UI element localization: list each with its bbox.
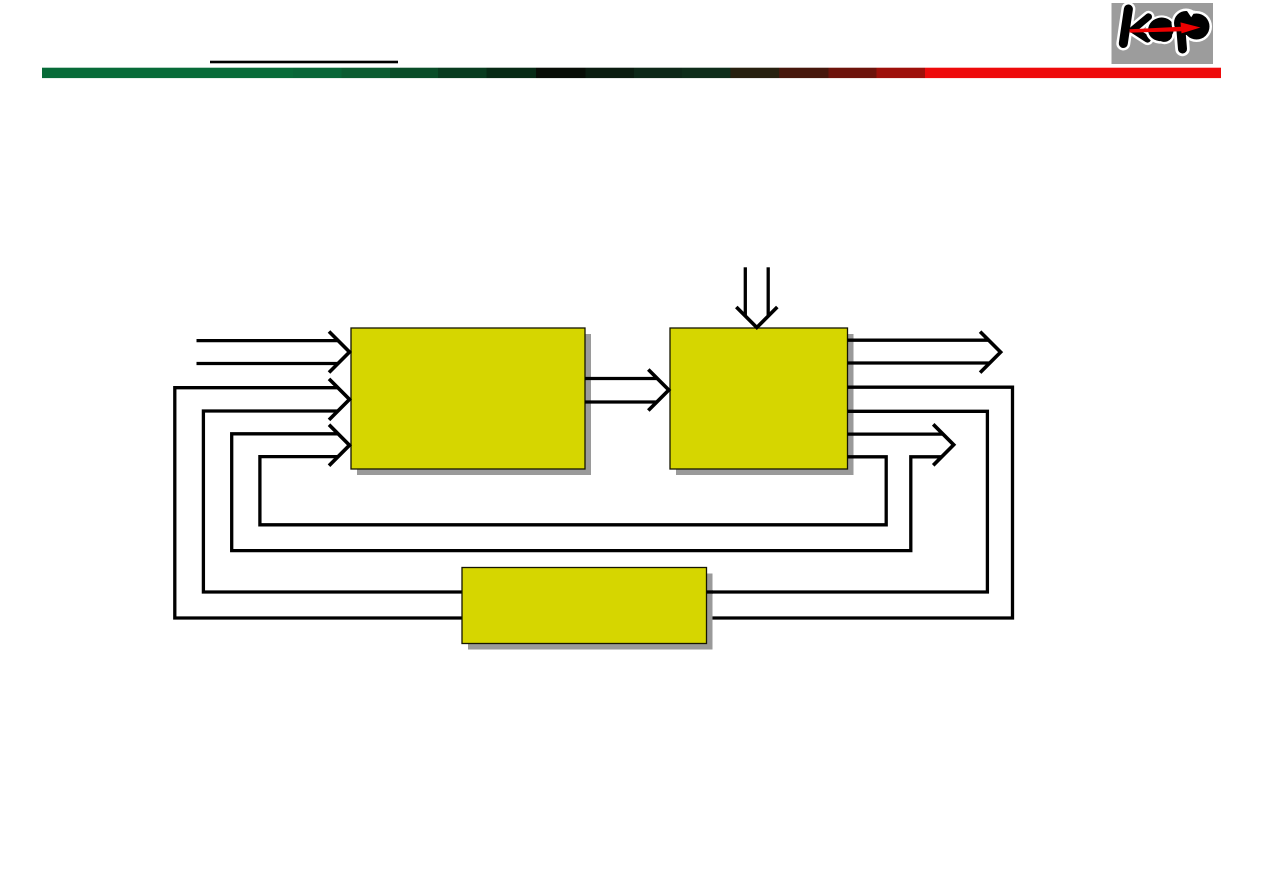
arrow M upper line (B1 to B2) bbox=[585, 377, 657, 380]
logo arrow head bbox=[1181, 22, 1201, 33]
wire feedback loop 4 (B2 out y457 to B1 in) bbox=[260, 457, 886, 525]
block B3 shadow bbox=[468, 574, 713, 650]
block B2 (right process box) bbox=[670, 328, 848, 469]
output arrow O1 head bbox=[980, 332, 1001, 373]
wire feedback loop 2 (B2 out y411 to B1 in lower) bbox=[203, 411, 987, 592]
logo arrow shaft bbox=[1130, 27, 1184, 33]
title underline bbox=[210, 61, 398, 64]
input arrow I1 head bbox=[329, 332, 350, 373]
block B1 shadow bbox=[357, 334, 591, 475]
block B1 (left process box) bbox=[351, 328, 585, 469]
block B2 shadow bbox=[676, 334, 854, 475]
top input arrow T head bbox=[736, 307, 777, 328]
top input arrow T right line bbox=[767, 267, 770, 316]
input arrow I1 upper line bbox=[197, 339, 339, 342]
logo letter p bbox=[1172, 9, 1213, 50]
output arrow O3 upper line bbox=[848, 432, 943, 435]
gradient divider bar bbox=[42, 68, 1221, 78]
input arrow I3 head bbox=[329, 425, 350, 466]
input arrow I1 lower line bbox=[197, 362, 339, 365]
top input arrow T left line bbox=[744, 267, 747, 316]
input arrow I2 head bbox=[329, 379, 350, 420]
logo letter k bbox=[1123, 9, 1148, 44]
output arrow O3 head bbox=[933, 424, 954, 465]
logo background plate bbox=[1112, 3, 1214, 64]
wire feedback loop 1 (B2 out y387 to B1 in upper) bbox=[175, 387, 1013, 618]
output arrow O1 upper line bbox=[848, 339, 990, 342]
block B3 (bottom feedback box) bbox=[462, 568, 707, 644]
arrow M lower line (B1 to B2) bbox=[585, 400, 657, 403]
wire stub B3 right upper bbox=[707, 590, 714, 593]
output arrow O1 lower line bbox=[848, 361, 990, 364]
logo letter e bbox=[1143, 12, 1180, 47]
wire feedback loop 3 (O3 return to B1 in) bbox=[232, 434, 942, 551]
arrow M head bbox=[648, 370, 669, 411]
